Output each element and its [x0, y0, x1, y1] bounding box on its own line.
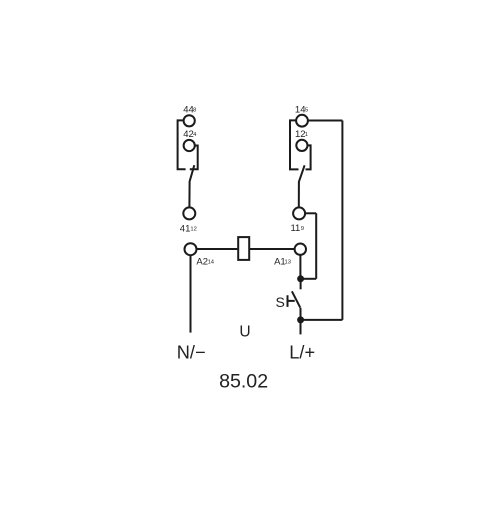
- wire: outer rail to node B: [301, 319, 343, 321]
- svg-text:N/−: N/−: [177, 342, 206, 362]
- wire: terminal 14 to outer right rail: [308, 120, 343, 122]
- wire: inner rail to node A: [301, 278, 317, 280]
- wire: inner right rail: [315, 213, 317, 278]
- svg-text:85.02: 85.02: [219, 371, 268, 393]
- wire: right connector from terminal 12: [306, 145, 311, 169]
- terminal 44: [184, 115, 195, 126]
- node B (junction dot): [297, 316, 304, 323]
- svg-text:8: 8: [193, 108, 196, 114]
- terminal 41: [183, 207, 195, 219]
- terminal 42: [184, 140, 195, 151]
- wire: A2 down to N lead: [190, 255, 192, 332]
- contact blade 11-12: [299, 165, 305, 207]
- svg-text:U: U: [239, 323, 250, 340]
- svg-text:A2: A2: [196, 256, 208, 267]
- switch S blade: [292, 291, 300, 307]
- svg-text:12: 12: [190, 227, 196, 233]
- svg-text:9: 9: [301, 226, 304, 232]
- wire: node A to switch: [300, 279, 302, 290]
- svg-text:4: 4: [193, 132, 197, 138]
- wire: terminal 11 to inner rail: [305, 212, 316, 214]
- svg-text:5: 5: [305, 108, 308, 114]
- wire: A1 down to node A: [299, 255, 301, 279]
- terminal A2: [185, 243, 197, 255]
- wire: node B down to L lead: [300, 320, 302, 335]
- svg-text:11: 11: [290, 223, 300, 234]
- svg-text:41: 41: [180, 223, 191, 234]
- terminal 12: [296, 140, 307, 151]
- terminal A1: [295, 244, 306, 255]
- wire: outer right rail: [341, 121, 343, 320]
- wire: left bracket of contact 14-12: [290, 120, 299, 169]
- wire: coil to A1: [250, 248, 295, 250]
- wire: right connector from terminal 42: [190, 146, 198, 170]
- switch S actuator: [288, 295, 295, 307]
- svg-text:14: 14: [295, 104, 306, 115]
- wire: switch to node B: [300, 308, 302, 320]
- svg-text:S: S: [276, 294, 285, 310]
- svg-text:13: 13: [284, 260, 290, 266]
- svg-text:14: 14: [208, 260, 215, 266]
- svg-text:1: 1: [305, 132, 308, 138]
- coil U (relay coil): [238, 237, 249, 260]
- contact blade 41-42: [189, 165, 194, 207]
- terminal 14: [296, 115, 308, 127]
- wire: A2 to coil: [197, 248, 238, 250]
- node A (junction dot): [297, 275, 304, 282]
- wire: left bracket of contact 44-42: [178, 120, 186, 169]
- terminal 11: [293, 207, 305, 219]
- svg-text:L/+: L/+: [289, 342, 315, 362]
